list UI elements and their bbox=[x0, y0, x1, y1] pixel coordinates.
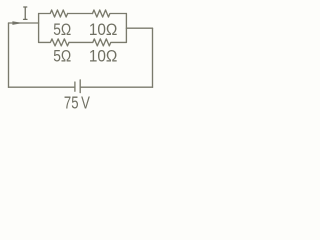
wire: connector from right rail to node B bbox=[126, 27, 152, 29]
resistor R3 5 ohm (bottom branch left) bbox=[39, 39, 69, 46]
label I (current) bbox=[24, 7, 28, 19]
wire: input wire from left rail to node A bbox=[9, 22, 39, 24]
wire: outer left rail bbox=[8, 23, 10, 87]
node A: inner box left rail bbox=[38, 14, 40, 43]
svg-text:75 V: 75 V bbox=[64, 92, 90, 112]
wire: bottom wire from left rail to battery bbox=[9, 86, 75, 88]
wire: bottom wire from battery to right rail bbox=[80, 86, 152, 88]
battery 75V: tall plate (positive) bbox=[79, 80, 81, 93]
battery 75V: short plate (negative) bbox=[74, 82, 76, 91]
node B: inner box right rail bbox=[125, 14, 127, 43]
resistor R4 10 ohm (bottom branch right) bbox=[93, 39, 127, 46]
wire: bottom branch between R3 and R4 bbox=[69, 41, 93, 43]
resistor R1 5 ohm (top branch left) bbox=[39, 10, 68, 17]
svg-text:5Ω: 5Ω bbox=[53, 47, 71, 65]
svg-text:5Ω: 5Ω bbox=[53, 21, 71, 39]
svg-text:10Ω: 10Ω bbox=[89, 21, 118, 39]
resistor R2 10 ohm (top branch right) bbox=[93, 10, 127, 17]
wire: top branch between R1 and R2 bbox=[68, 13, 93, 15]
wire: outer right rail bbox=[152, 28, 154, 87]
current arrow head on input wire bbox=[12, 21, 22, 25]
svg-text:10Ω: 10Ω bbox=[89, 47, 118, 65]
